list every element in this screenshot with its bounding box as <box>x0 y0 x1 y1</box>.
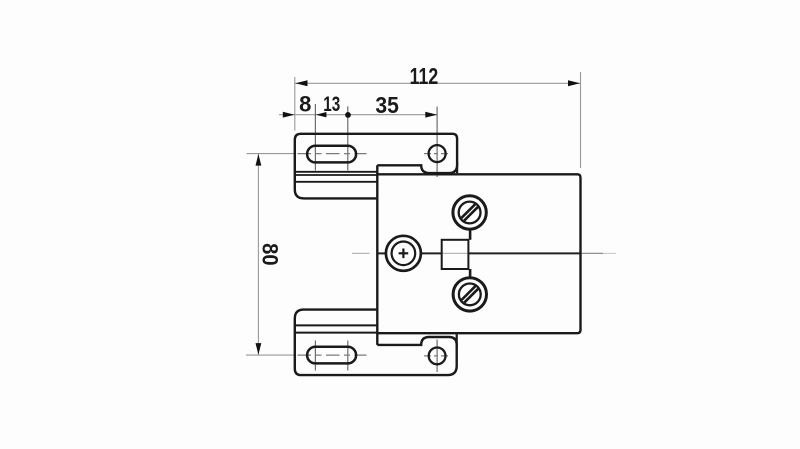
svg-text:35: 35 <box>375 92 399 118</box>
svg-text:80: 80 <box>258 243 283 266</box>
svg-text:112: 112 <box>410 63 439 89</box>
svg-text:13: 13 <box>323 92 340 116</box>
svg-text:8: 8 <box>299 92 311 117</box>
